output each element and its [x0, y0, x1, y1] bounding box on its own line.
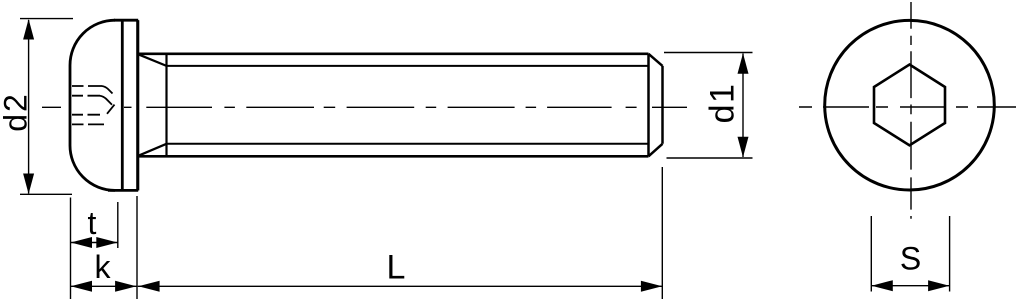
extension line head left (t,k) — [70, 198, 72, 299]
thread root line top — [167, 65, 649, 67]
svg-text:L: L — [387, 249, 406, 287]
screw head inner edge line — [121, 20, 124, 190]
svg-text:S: S — [900, 241, 921, 277]
svg-text:d1: d1 — [704, 83, 742, 124]
screw head bottom flat — [108, 189, 138, 192]
extension line screw tip (L) — [661, 167, 663, 299]
dimension L arrow left — [138, 281, 159, 292]
dimension L arrow right — [641, 281, 662, 292]
dimension t line — [71, 242, 118, 244]
dimension d1 extension line bottom — [667, 157, 753, 159]
end view outer circle — [825, 20, 995, 190]
hidden hex socket line row4 — [72, 123, 104, 125]
dimension t arrow left — [71, 237, 92, 248]
dimension d1 extension line top — [664, 52, 753, 54]
dimension S line — [871, 285, 949, 287]
svg-text:t: t — [88, 205, 97, 241]
hidden hex socket line row1 — [72, 85, 102, 87]
side view centerline — [42, 106, 687, 108]
dimension S extension line left — [870, 216, 872, 292]
dimension d1 arrow down — [738, 137, 749, 158]
dimension L line — [138, 285, 663, 287]
hidden hex socket line row2 — [72, 95, 100, 97]
thread root line bottom — [167, 143, 649, 145]
dimension d1 line — [742, 54, 744, 158]
svg-text:d2: d2 — [0, 92, 34, 132]
screw head face corner edge — [137, 20, 139, 190]
hidden socket cone diagonal lower — [107, 105, 115, 114]
screw head seating face — [136, 20, 139, 190]
hidden socket cone diagonal upper — [102, 86, 113, 94]
dimension d2 extension line bottom — [20, 193, 72, 195]
dimension S arrow left — [872, 280, 893, 291]
dimension d2 line — [28, 20, 30, 194]
thread end edge — [647, 54, 650, 157]
hidden socket cone diagonal middle — [100, 96, 112, 105]
tip end face — [661, 66, 664, 144]
thread outer line top — [137, 52, 649, 55]
screw head dome outline — [70, 20, 115, 190]
dimension d1 arrow up — [738, 53, 749, 74]
thread outer line bottom — [137, 155, 649, 158]
thread runout chamfer top — [137, 54, 167, 66]
tip chamfer bottom — [649, 144, 663, 157]
screw head top flat — [114, 19, 138, 22]
dimension S extension line right — [949, 216, 951, 292]
tip chamfer top — [649, 54, 663, 66]
end view vertical centerline — [910, 2, 912, 219]
dimension S arrow right — [928, 280, 949, 291]
hidden hex socket line row3 — [72, 114, 100, 116]
dimension t arrow right — [96, 237, 117, 248]
thread runout vertical — [165, 54, 167, 157]
dimension d2 arrow down — [23, 174, 34, 195]
dimension d2 arrow up — [23, 19, 34, 40]
thread runout chamfer bottom — [137, 144, 167, 157]
dimension d2 extension line top — [20, 18, 73, 20]
extension line head face (k,L) — [136, 196, 138, 299]
dimension k arrow left — [71, 281, 92, 292]
end view hex socket — [874, 65, 945, 146]
svg-text:k: k — [95, 249, 112, 285]
dimension k arrow right — [115, 281, 136, 292]
dimension k line — [71, 285, 138, 287]
end view horizontal centerline — [799, 106, 1016, 108]
extension line socket depth t — [117, 202, 119, 248]
